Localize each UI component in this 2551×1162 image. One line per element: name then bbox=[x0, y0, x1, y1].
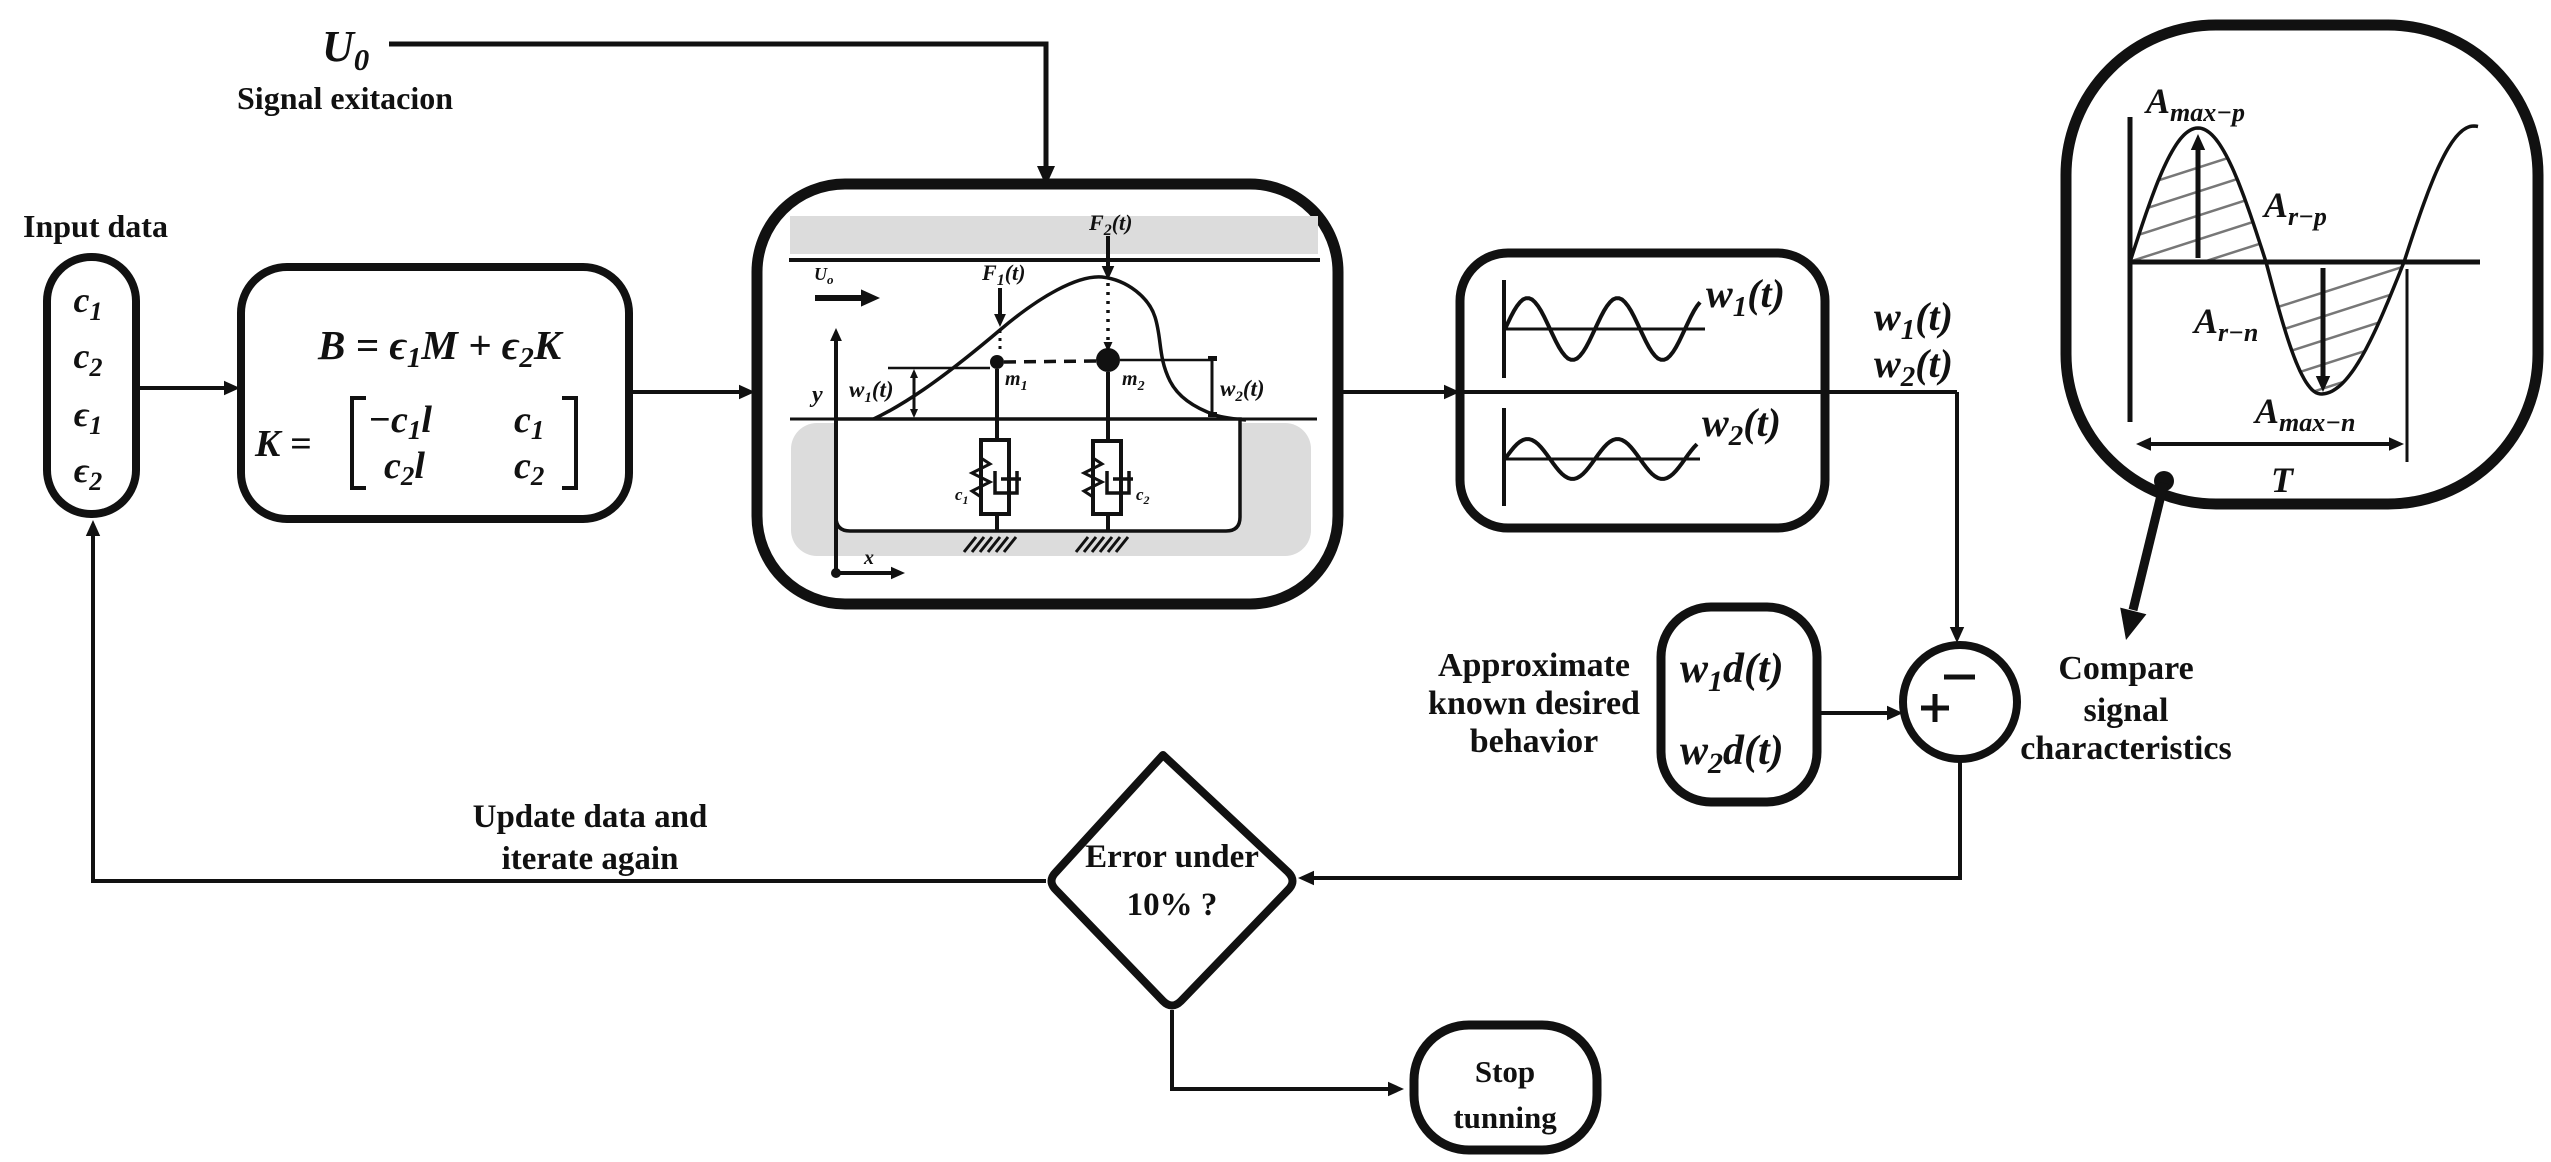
svg-text:Stop: Stop bbox=[1475, 1054, 1535, 1089]
svg-text:Approximate: Approximate bbox=[1438, 647, 1630, 684]
spring-damper c2 bbox=[1106, 372, 1110, 441]
lower sine w2 bbox=[1505, 439, 1697, 479]
block input data pill bbox=[47, 257, 136, 514]
arrow F2 bbox=[1106, 236, 1110, 268]
block mechanical system bbox=[757, 184, 1338, 604]
blob v axis bbox=[2128, 117, 2133, 422]
svg-text:characteristics: characteristics bbox=[2020, 730, 2231, 767]
wire U0 to system block bbox=[389, 44, 1046, 170]
ground hatch c1 bbox=[964, 537, 1016, 552]
blob sine bbox=[2130, 126, 2478, 394]
dotted line m2 to curve bbox=[1106, 283, 1110, 344]
beam deflection curve bbox=[850, 277, 1246, 429]
svg-text:T: T bbox=[2271, 460, 2295, 500]
w1 measure tick bbox=[888, 367, 990, 370]
svg-text:tunning: tunning bbox=[1453, 1100, 1557, 1135]
wire down to summation bbox=[1955, 392, 1959, 630]
svg-text:w1d(t): w1d(t) bbox=[1680, 646, 1784, 698]
wire through waveform block bbox=[1460, 390, 1957, 394]
block waveform outputs bbox=[1460, 253, 1825, 528]
svg-text:Compare: Compare bbox=[2058, 650, 2193, 687]
T dimension line bbox=[2148, 442, 2392, 446]
wire equation block to system block bbox=[629, 390, 741, 394]
svg-text:w2d(t): w2d(t) bbox=[1680, 728, 1784, 780]
mass m2 bbox=[1096, 348, 1120, 372]
spring-damper c1 bbox=[995, 369, 999, 440]
gray top bar bbox=[790, 216, 1318, 254]
svg-text:10% ?: 10% ? bbox=[1127, 887, 1218, 923]
w1 measure arrow bbox=[913, 372, 916, 415]
gray trough bbox=[791, 423, 1311, 556]
label update data and iterate again bbox=[473, 799, 708, 877]
label approximate known desired behavior bbox=[1428, 647, 1640, 760]
dotted line F1 to m1 bbox=[999, 330, 1002, 354]
x axis bbox=[831, 568, 841, 578]
wire decision no: update and iterate bbox=[93, 534, 1046, 881]
link m2 to w2 measure bbox=[1120, 359, 1212, 362]
svg-text:Input data: Input data bbox=[23, 208, 168, 244]
thick arrow to compare label bbox=[2133, 483, 2164, 610]
dashed link m1 m2 bbox=[1004, 361, 1096, 362]
w2 measure line bbox=[1211, 357, 1214, 416]
white inner ground box bbox=[836, 419, 1240, 531]
svg-text:w1(t): w1(t) bbox=[849, 377, 894, 406]
svg-text:x: x bbox=[863, 547, 874, 569]
line under gray bar bbox=[789, 258, 1320, 262]
svg-text:behavior: behavior bbox=[1470, 723, 1598, 760]
svg-text:w2(t): w2(t) bbox=[1220, 376, 1265, 405]
lower plot axes bbox=[1502, 408, 1506, 506]
hatch positive lobe bbox=[2110, 138, 2290, 412]
y axis bbox=[834, 336, 838, 574]
wire summation down-left to decision bbox=[1312, 759, 1960, 878]
upper plot axes bbox=[1502, 280, 1506, 378]
dot on blob bbox=[2154, 471, 2174, 491]
upper sine w1 bbox=[1505, 298, 1700, 360]
svg-text:K =: K = bbox=[254, 423, 312, 465]
hatch negative lobe bbox=[2250, 258, 2430, 532]
ground hatch c2 bbox=[1076, 537, 1128, 552]
blob labels bbox=[2144, 81, 2355, 500]
node U0 signal excitation label bbox=[237, 22, 453, 116]
label compare signal characteristics bbox=[2020, 650, 2231, 767]
wire input data to equation block bbox=[136, 386, 226, 390]
block desired signals w1d w2d bbox=[1661, 607, 1817, 802]
wire decision yes to stop bbox=[1172, 1010, 1390, 1089]
svg-text:Error under: Error under bbox=[1085, 839, 1259, 875]
svg-text:Signal exitacion: Signal exitacion bbox=[237, 80, 453, 116]
T right boundary bbox=[2406, 269, 2409, 462]
blob h axis bbox=[2130, 260, 2480, 265]
svg-text:Update data and: Update data and bbox=[473, 799, 708, 835]
arrow F1 bbox=[998, 288, 1002, 315]
svg-text:−c1l: −c1l bbox=[368, 399, 432, 445]
arrow Amax-p bbox=[2196, 148, 2201, 258]
block signal characteristics detail bbox=[2066, 25, 2538, 504]
mass m1 bbox=[990, 355, 1004, 369]
wire system to waveform block bbox=[1340, 390, 1446, 394]
svg-text:iterate again: iterate again bbox=[502, 841, 679, 877]
svg-text:signal: signal bbox=[2083, 692, 2168, 729]
arrow U0 flow bbox=[815, 295, 862, 301]
block equations B and K bbox=[241, 267, 629, 519]
block stop tunning bbox=[1414, 1025, 1597, 1150]
arrow Amax-n bbox=[2321, 268, 2326, 378]
wire desired block to summation bbox=[1817, 711, 1890, 715]
beam baseline bbox=[790, 418, 1317, 421]
svg-text:known desired: known desired bbox=[1428, 685, 1640, 722]
summation junction bbox=[1903, 645, 2017, 759]
decision error under 10% bbox=[1052, 755, 1293, 1006]
svg-text:y: y bbox=[809, 382, 823, 408]
